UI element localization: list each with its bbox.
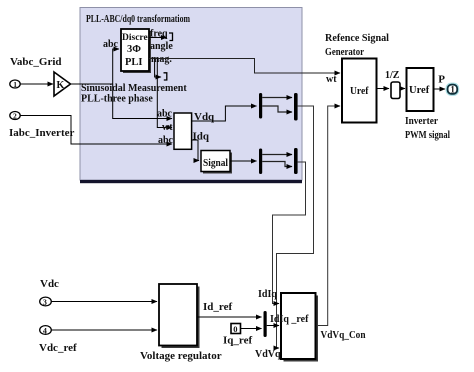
- wire branch wt down to dq block wt input: [157, 59, 172, 128]
- svg-text:1/Z: 1/Z: [385, 70, 400, 81]
- Signal block: [201, 151, 232, 174]
- wire pair1 top: [262, 97, 292, 99]
- svg-text:IdIq: IdIq: [258, 289, 277, 300]
- wire pair2 top: [262, 154, 292, 156]
- svg-text:PLL-three phase: PLL-three phase: [81, 94, 153, 105]
- svg-text:wt: wt: [162, 122, 173, 133]
- wire pair2 stepped: [262, 162, 292, 167]
- wire port3 to regulator: [51, 301, 157, 303]
- Voltage regulator block U5: [159, 284, 200, 348]
- demux bar 1: [259, 93, 262, 119]
- mux bar 1: [294, 93, 298, 121]
- wire freq to terminator: [149, 37, 167, 39]
- svg-text:Iq_ref: Iq_ref: [223, 335, 252, 347]
- wire mux2 out down (IdIq feed): [273, 162, 306, 304]
- wire port2 to dq block abc2 input: [20, 116, 172, 145]
- Uref generator block U3: [342, 59, 377, 123]
- svg-text:Inverter: Inverter: [405, 115, 438, 127]
- svg-text:Generator: Generator: [325, 46, 364, 58]
- svg-text:4: 4: [43, 326, 47, 335]
- input port 1: [10, 80, 20, 89]
- svg-text:VdVq_Con: VdVq_Con: [321, 329, 366, 341]
- constant 0 block: [231, 324, 241, 334]
- demux bar 2: [259, 149, 262, 175]
- svg-text:1: 1: [450, 85, 455, 95]
- svg-text:abc: abc: [157, 109, 173, 120]
- wire mux3 to VdVq_Con in2: [267, 325, 279, 327]
- Uref PWM block U4: [407, 68, 434, 111]
- wire gain to PLL abc input: [71, 49, 120, 84]
- svg-text:Discret: Discret: [122, 33, 152, 43]
- svg-text:abc: abc: [103, 39, 119, 50]
- svg-text:P: P: [438, 74, 445, 86]
- svg-text:2: 2: [13, 112, 17, 121]
- svg-text:0: 0: [233, 324, 237, 334]
- svg-text:PWM signal: PWM signal: [405, 129, 450, 141]
- wire const0 to mux: [241, 328, 262, 330]
- svg-text:Uref: Uref: [350, 85, 369, 97]
- svg-text:Refence Signal: Refence Signal: [325, 32, 389, 44]
- wire Vdq to demux bar 1: [192, 106, 257, 121]
- wire unit delay to Uref2: [400, 88, 405, 90]
- svg-text:IdIq _ref: IdIq _ref: [270, 314, 309, 325]
- wire Idq to Signal block: [192, 140, 199, 161]
- svg-text:K: K: [57, 80, 65, 91]
- wire Id_ref to mux: [197, 316, 262, 318]
- wire mux1 out down (VdVq feed): [277, 106, 314, 348]
- svg-text:3Φ: 3Φ: [127, 44, 141, 55]
- wire Uref1 out to unit delay: [377, 88, 390, 90]
- wire wt long run to Uref generator: [149, 59, 340, 74]
- wire port1 to gain: [20, 83, 53, 85]
- dq transform block U2: [174, 113, 192, 149]
- terminator T2: [164, 73, 167, 80]
- wire pair1 stepped: [262, 106, 292, 112]
- input port 2: [10, 112, 20, 121]
- svg-text:angle: angle: [150, 41, 173, 52]
- svg-text:Idq: Idq: [193, 131, 210, 143]
- unit delay block: [391, 82, 400, 99]
- input port 3: [40, 297, 52, 307]
- svg-text:Uref: Uref: [409, 85, 430, 96]
- svg-text:Vdc: Vdc: [40, 278, 59, 290]
- mux bar 3: [264, 311, 267, 337]
- wire VdVq_Con output feedback up to Uref1 in2: [316, 106, 340, 326]
- VdVq_Con block U6: [281, 293, 318, 362]
- svg-text:PLL-ABC/dq0 transformatiom: PLL-ABC/dq0 transformatiom: [86, 13, 190, 25]
- svg-text:PLI: PLI: [125, 57, 143, 68]
- wire branch to terminator T2: [155, 59, 161, 78]
- svg-text:Sinusoidal Measurement: Sinusoidal Measurement: [81, 83, 187, 94]
- svg-text:Signal: Signal: [203, 158, 228, 169]
- svg-text:1: 1: [13, 80, 17, 89]
- svg-text:Vabc_Grid: Vabc_Grid: [10, 56, 62, 68]
- PLL block U1 (Discrete 3-phase PLL): [121, 29, 152, 73]
- wire branch gain signal down to dq block abc input: [113, 84, 172, 119]
- svg-text:Iabc_Inverter: Iabc_Inverter: [9, 127, 74, 139]
- terminator T1: [169, 33, 173, 41]
- svg-text:VdVq: VdVq: [255, 349, 281, 360]
- gain K: [54, 72, 71, 96]
- svg-text:3: 3: [43, 298, 47, 307]
- output port 1: [447, 84, 459, 95]
- svg-text:Vdc_ref: Vdc_ref: [39, 342, 77, 354]
- svg-text:Voltage regulator: Voltage regulator: [140, 350, 222, 362]
- wire port4 to regulator: [51, 329, 157, 331]
- wire Uref2 to output port: [434, 88, 446, 90]
- svg-text:Id_ref: Id_ref: [203, 301, 232, 313]
- input port 4: [40, 326, 52, 336]
- mux bar 2: [294, 148, 298, 174]
- wire Signal to demux bar 2: [230, 160, 257, 162]
- svg-text:abc: abc: [158, 135, 174, 146]
- PLL-ABC/dq0 subsystem shaded area: [80, 8, 302, 184]
- svg-text:wt: wt: [326, 74, 337, 85]
